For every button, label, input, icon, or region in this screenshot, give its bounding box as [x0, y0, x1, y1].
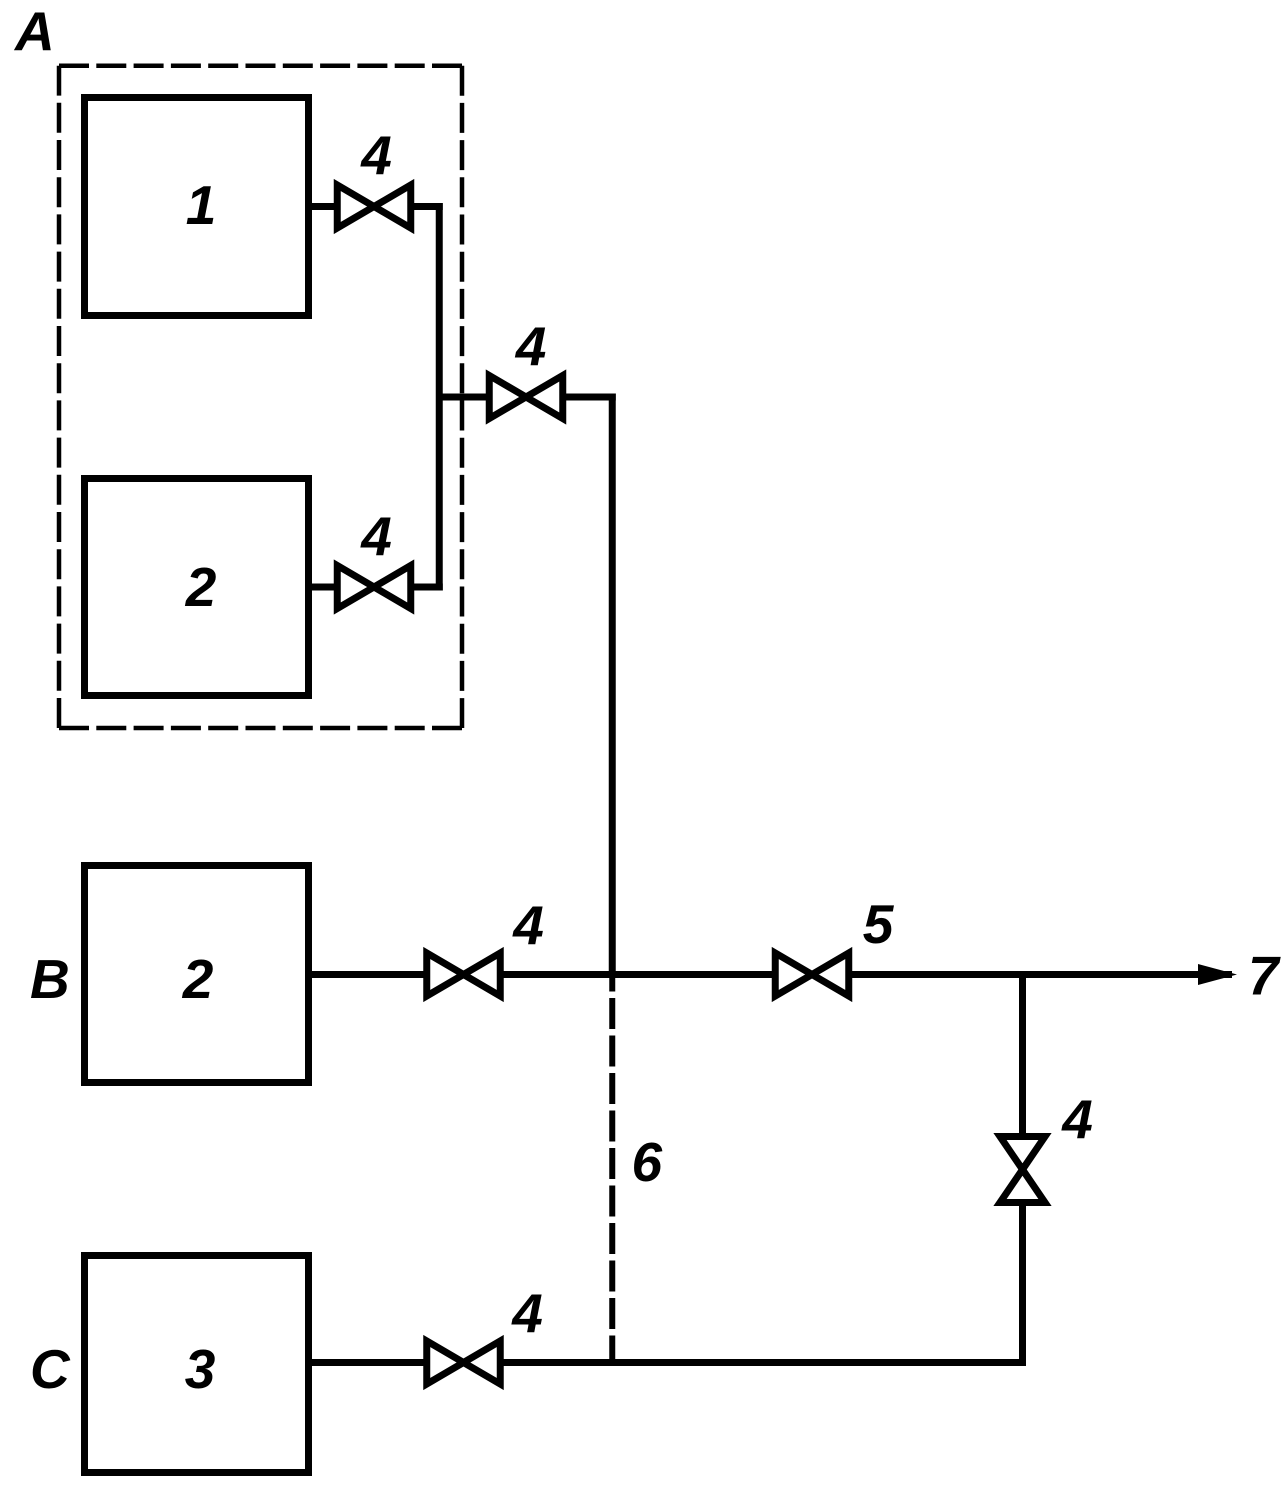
wire riser inside group A	[436, 203, 443, 591]
svg-text:C: C	[30, 1338, 71, 1400]
valve 4 (tank B outlet)	[427, 953, 501, 996]
tank 2 (in group A)	[85, 479, 309, 696]
wire valve to riser	[408, 584, 443, 591]
valve 4 (group A outlet)	[489, 376, 563, 419]
group A dashed boundary bottom	[59, 726, 462, 731]
svg-text:B: B	[30, 948, 70, 1010]
tank 1	[85, 98, 309, 316]
wire tank C to valve	[308, 1359, 430, 1366]
svg-text:4: 4	[360, 505, 392, 567]
wire branch down from main line	[1019, 975, 1026, 1137]
group A dashed boundary right	[460, 66, 465, 728]
valve 4 (tank 2 outlet)	[337, 566, 411, 609]
wire downcomer to main line	[609, 394, 616, 975]
wire valve to downcomer	[560, 394, 616, 401]
valve 4 (tank 1 outlet)	[337, 185, 411, 228]
svg-text:4: 4	[512, 894, 544, 956]
valve 4 (tank C outlet)	[427, 1341, 501, 1384]
svg-text:2: 2	[182, 948, 214, 1010]
main wire to valve 5	[497, 971, 777, 978]
valve 5 (main shutoff)	[775, 953, 849, 996]
wire valve to riser	[408, 203, 443, 210]
svg-text:2: 2	[185, 556, 217, 618]
svg-text:A: A	[13, 0, 55, 62]
wire tank C line to bypass riser	[497, 1359, 1026, 1366]
group A dashed boundary top	[59, 63, 462, 68]
svg-text:6: 6	[632, 1131, 663, 1193]
tank B (2)	[85, 866, 309, 1083]
wire tank B to valve	[308, 971, 430, 978]
dashed equalizing line 6	[609, 975, 615, 1363]
group A dashed boundary left	[57, 66, 62, 728]
svg-text:4: 4	[511, 1282, 543, 1344]
wire bypass valve down to tank C line	[1019, 1203, 1026, 1366]
svg-text:4: 4	[515, 315, 547, 377]
svg-text:4: 4	[360, 124, 392, 186]
wire riser to group outlet valve	[439, 394, 490, 401]
svg-text:4: 4	[1061, 1088, 1093, 1150]
svg-text:1: 1	[186, 174, 217, 236]
tank C (3)	[85, 1256, 309, 1473]
svg-text:7: 7	[1248, 945, 1281, 1007]
valve 4 (bypass, vertical)	[1000, 1137, 1045, 1203]
wire tank1 to valve	[308, 203, 340, 210]
svg-text:5: 5	[863, 893, 895, 955]
wire tank2 to valve	[308, 584, 340, 591]
main wire to outlet arrow	[846, 971, 1232, 978]
svg-text:3: 3	[185, 1338, 216, 1400]
outlet arrow head	[1198, 964, 1237, 985]
